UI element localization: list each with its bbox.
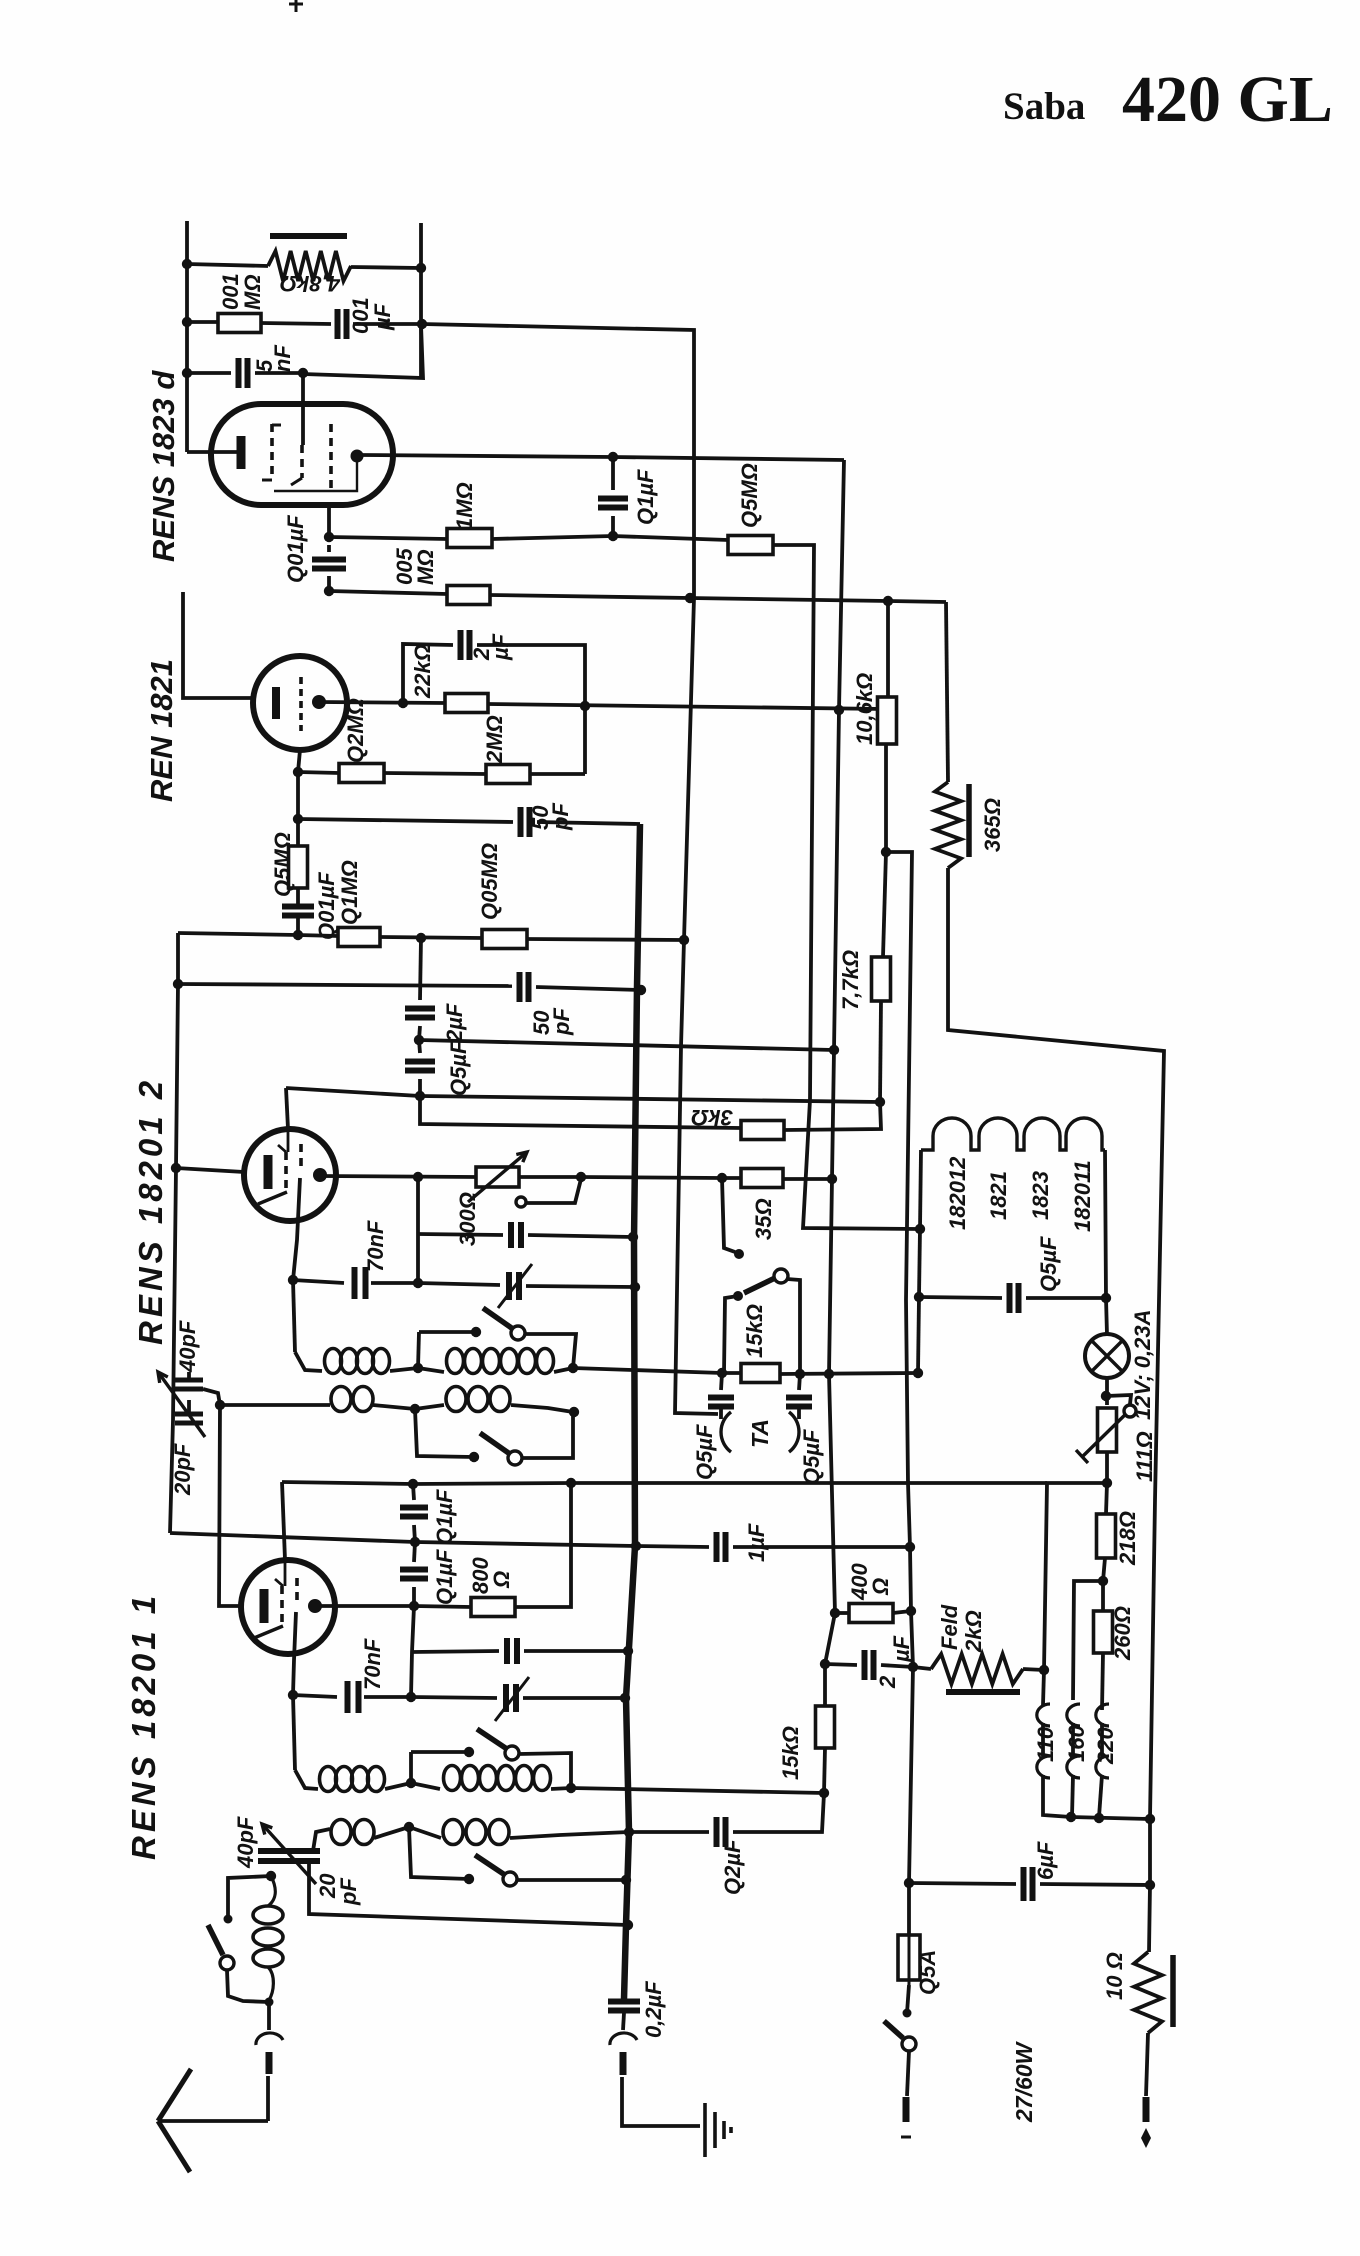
node junction right stub / 4.8k row bbox=[416, 263, 426, 273]
node trimmer bottom bbox=[266, 1871, 276, 1881]
wire bbox=[409, 1827, 469, 1879]
resistor 0,05M ohm bbox=[482, 930, 527, 949]
svg-text:Ω: Ω bbox=[868, 1578, 893, 1596]
capacitor 0,2uF bottom bbox=[608, 2002, 640, 2011]
resistor 7,7k ohm bbox=[872, 957, 891, 1001]
svg-text:260Ω: 260Ω bbox=[1110, 1606, 1135, 1661]
capacitor 20pF top plate bbox=[175, 1412, 203, 1417]
node S2 contact bbox=[469, 1452, 479, 1462]
wire bbox=[411, 1783, 440, 1789]
mains plug pin right bbox=[1143, 2097, 1150, 2122]
wire bbox=[327, 545, 331, 552]
switch pivot circle bbox=[902, 2037, 916, 2051]
wire bbox=[510, 1832, 629, 1838]
wire bbox=[1026, 1296, 1106, 1300]
resistor 10 ohm zigzag bbox=[1134, 1952, 1162, 2033]
plug diamond bbox=[1141, 2128, 1151, 2148]
wire bbox=[525, 1334, 576, 1368]
node rail B / cap row bbox=[623, 1646, 633, 1656]
wire bbox=[719, 1409, 723, 1419]
wire bbox=[1099, 1775, 1102, 1817]
wire bbox=[629, 1830, 709, 1834]
node anode row / 0.1uF cap bbox=[608, 452, 618, 462]
trimmer capacitor V4 bbox=[506, 1684, 516, 1712]
wire bbox=[220, 1403, 330, 1407]
node tap 160 bbox=[1066, 1812, 1076, 1822]
wire bbox=[524, 1649, 628, 1653]
wire bbox=[797, 1409, 801, 1419]
antenna plug pin bbox=[266, 2052, 273, 2074]
wire bbox=[267, 2002, 271, 2030]
tube V3 grid bar bbox=[264, 1155, 273, 1189]
wire bbox=[296, 819, 300, 846]
node coil junction L4 bbox=[404, 1822, 414, 1832]
trimmer arrow bbox=[158, 1372, 205, 1437]
wire bbox=[918, 1297, 919, 1373]
node anode row / cap column bbox=[409, 1601, 419, 1611]
wire bbox=[1043, 1775, 1071, 1817]
wire bbox=[622, 2077, 700, 2126]
wire bbox=[296, 772, 300, 819]
resistor 3k ohm bbox=[741, 1121, 784, 1140]
wire bbox=[783, 1177, 832, 1181]
transformer tap 160 bbox=[1067, 1704, 1080, 1778]
coil L4b bbox=[443, 1820, 463, 1845]
switch pivot circle bbox=[516, 1197, 526, 1207]
resistor 400 ohm bbox=[849, 1604, 893, 1623]
node rail C / 2uF row bbox=[820, 1659, 830, 1669]
node tap 220 bbox=[1094, 1813, 1104, 1823]
wire bbox=[282, 1482, 285, 1560]
wire bbox=[373, 1405, 415, 1409]
svg-text:Q5µF: Q5µF bbox=[446, 1040, 471, 1096]
resistor 10,6k ohm bbox=[878, 697, 897, 744]
svg-text:15kΩ: 15kΩ bbox=[778, 1726, 803, 1780]
wire bbox=[920, 1150, 921, 1229]
svg-text:Q01µF: Q01µF bbox=[283, 515, 308, 583]
node grid column top bbox=[215, 1400, 225, 1410]
node 0.1M/0.05M row / 2uF column bbox=[416, 933, 426, 943]
wire bbox=[526, 1286, 635, 1287]
wire bbox=[298, 772, 339, 773]
node antenna coil bottom bbox=[265, 1998, 274, 2007]
wire bbox=[415, 1542, 636, 1546]
wire bbox=[411, 1750, 469, 1754]
node coil junction L3 bbox=[406, 1778, 416, 1788]
node 15k right / switch bbox=[795, 1369, 805, 1379]
wire bbox=[523, 1696, 625, 1700]
svg-text:RENS 1823 d: RENS 1823 d bbox=[146, 370, 181, 562]
wire bbox=[293, 1695, 337, 1697]
resistor 0,5M ohm cathode bbox=[289, 846, 308, 888]
node cathode/0.2M row bbox=[293, 767, 303, 777]
node rail C / 15k row bbox=[824, 1369, 834, 1379]
wire bbox=[158, 2069, 191, 2121]
node 218 bottom / 160 branch bbox=[1098, 1576, 1108, 1586]
lamp 12V 0,23A bbox=[1085, 1334, 1129, 1378]
resistor 365 ohm zigzag bbox=[935, 782, 961, 868]
svg-text:Q5µF: Q5µF bbox=[1036, 1236, 1061, 1292]
wire bbox=[636, 1546, 709, 1547]
wire bbox=[227, 1970, 269, 2002]
wire bbox=[418, 1283, 500, 1285]
tube V1 anode plate thin L bbox=[274, 462, 357, 491]
svg-text:6µF: 6µF bbox=[1033, 1841, 1058, 1880]
switch pivot circle bbox=[511, 1326, 525, 1340]
wire bbox=[893, 1611, 911, 1613]
svg-text:Q5A: Q5A bbox=[915, 1950, 940, 1995]
node fuse bottom bbox=[903, 2009, 912, 2018]
switch pivot circle bbox=[774, 1269, 788, 1283]
svg-text:15kΩ: 15kΩ bbox=[742, 1304, 767, 1358]
resistor 22k ohm bbox=[445, 694, 488, 713]
resistor 260 ohm bbox=[1094, 1611, 1113, 1653]
svg-text:Q05MΩ: Q05MΩ bbox=[477, 843, 502, 920]
svg-text:35Ω: 35Ω bbox=[751, 1198, 776, 1240]
svg-text:160: 160 bbox=[1064, 1725, 1089, 1762]
node rail D / 2uF row bbox=[908, 1662, 918, 1672]
heater winding bumps bbox=[921, 1118, 1105, 1150]
capacitor 0,2uF bbox=[717, 1817, 726, 1847]
wire bbox=[413, 1484, 414, 1500]
wire bbox=[416, 1177, 420, 1283]
coil bbox=[253, 1949, 283, 1967]
resistor 4,8kOhm zigzag bbox=[268, 251, 351, 281]
wire bbox=[526, 1179, 581, 1203]
node coil L2b right bbox=[569, 1407, 579, 1417]
resistor 0,2M ohm bbox=[339, 764, 384, 783]
wire bbox=[409, 1827, 441, 1838]
svg-text:RENS 18201 1: RENS 18201 1 bbox=[125, 1592, 162, 1860]
svg-text:2: 2 bbox=[875, 1675, 900, 1689]
wire bbox=[419, 1040, 834, 1050]
wire bbox=[527, 939, 684, 940]
wire bbox=[411, 1697, 497, 1698]
wire bbox=[298, 935, 338, 936]
wire bbox=[414, 1525, 415, 1542]
resistor 0,01 M ohm bbox=[218, 314, 261, 333]
wire bbox=[1023, 1669, 1044, 1670]
node 2uF / row 1040 bbox=[414, 1035, 424, 1045]
wire bbox=[158, 2119, 268, 2123]
node rail A / row 940 bbox=[679, 935, 689, 945]
wire bbox=[1106, 1483, 1107, 1514]
node heater left / 0.5uF row bbox=[914, 1292, 924, 1302]
capacitor 50pF first bbox=[521, 807, 530, 837]
tube V1 anode dot bbox=[351, 450, 364, 463]
svg-text:Q1µF: Q1µF bbox=[633, 469, 658, 525]
resistor 0,5M ohm bbox=[728, 536, 773, 555]
wire bbox=[282, 1482, 413, 1484]
wire bbox=[414, 1606, 471, 1607]
capacitor 20pF bottom plate bbox=[175, 1421, 203, 1426]
capacitor 0,01uF bbox=[282, 907, 314, 916]
wire bbox=[412, 1587, 416, 1606]
node 0.5uF / row 1097 bbox=[415, 1091, 425, 1101]
node 300ohm right bbox=[576, 1172, 586, 1182]
svg-text:µF: µF bbox=[488, 633, 513, 661]
chassis plug pin bbox=[620, 2052, 627, 2075]
wire bbox=[787, 1279, 800, 1374]
tube V2 REN 1821 envelope bbox=[253, 656, 347, 750]
wire bbox=[477, 645, 585, 774]
node 5nF/grid junction bbox=[298, 368, 308, 378]
switch lever bbox=[483, 1308, 513, 1329]
svg-text:10,6kΩ: 10,6kΩ bbox=[852, 673, 877, 745]
node rail B / coil row bbox=[624, 1827, 634, 1837]
wire bbox=[886, 601, 890, 697]
rail F right bbox=[948, 868, 1164, 1819]
wire bbox=[773, 545, 920, 1229]
wire bbox=[187, 320, 218, 324]
wire bbox=[946, 602, 948, 782]
svg-text:µF: µF bbox=[370, 303, 395, 331]
svg-text:Q2µF: Q2µF bbox=[720, 1839, 745, 1895]
capacitor 2uF bbox=[865, 1650, 874, 1680]
wire bbox=[571, 1788, 824, 1793]
svg-text:40pF: 40pF bbox=[233, 1816, 258, 1869]
node 10.6k top bbox=[883, 596, 893, 606]
svg-text:RENS 18201 2: RENS 18201 2 bbox=[132, 1077, 169, 1345]
node 35ohm left bbox=[717, 1173, 727, 1183]
node rail C / 400ohm bbox=[830, 1608, 840, 1618]
svg-text:4,8kΩ: 4,8kΩ bbox=[280, 271, 341, 296]
node junction left rail / 4.8k row bbox=[182, 259, 192, 269]
wire bbox=[913, 1667, 931, 1669]
svg-text:pF: pF bbox=[548, 803, 573, 831]
switch lever bbox=[480, 1433, 510, 1454]
node 111/218 junction bbox=[1102, 1478, 1112, 1488]
svg-text:182011: 182011 bbox=[1070, 1160, 1095, 1232]
node rail B / 70nF row bbox=[630, 1282, 640, 1292]
capacitor fixed V4 bbox=[507, 1638, 517, 1664]
node rail A / 0.05M row bbox=[685, 593, 695, 603]
svg-text:20pF: 20pF bbox=[170, 1443, 195, 1496]
wire bbox=[419, 1040, 420, 1053]
capacitor 0,5uF TA left bbox=[708, 1398, 734, 1407]
wire bbox=[270, 233, 347, 239]
node rail B / 50pF row bbox=[636, 985, 646, 995]
transformer tap 220 bbox=[1096, 1704, 1109, 1778]
wire bbox=[835, 1611, 849, 1615]
node switch open contact bbox=[734, 1249, 744, 1259]
svg-text:110: 110 bbox=[1033, 1726, 1058, 1762]
node rail/0.01M row bbox=[182, 317, 192, 327]
wire bbox=[511, 1405, 573, 1412]
rheostat 111 ohm bbox=[1098, 1408, 1117, 1452]
wire bbox=[530, 772, 585, 776]
wire bbox=[519, 1753, 571, 1788]
node S1b contact bbox=[464, 1747, 474, 1757]
node rail / V3 grid bbox=[171, 1163, 181, 1173]
capacitor 70nF V4 bbox=[348, 1681, 359, 1713]
wire bbox=[351, 267, 421, 268]
node rail D / 6uF row bbox=[904, 1878, 914, 1888]
coil L2b bbox=[446, 1387, 466, 1412]
wire bbox=[611, 516, 615, 536]
resistor 35 ohm bbox=[741, 1169, 783, 1188]
wire bbox=[721, 1373, 722, 1390]
resistor 2M ohm bbox=[486, 765, 530, 784]
wire bbox=[883, 852, 886, 957]
node top row junction bbox=[417, 319, 427, 329]
Feld core bar bbox=[946, 1689, 1020, 1695]
svg-text:40pF: 40pF bbox=[175, 1320, 200, 1373]
wire bbox=[722, 1176, 741, 1180]
wire bbox=[362, 455, 844, 460]
wire bbox=[528, 1235, 633, 1237]
potentiometer 300 ohm bbox=[476, 1167, 519, 1187]
svg-text:10 Ω: 10 Ω bbox=[1102, 1952, 1127, 2000]
wire bbox=[675, 598, 718, 1414]
wire bbox=[537, 822, 640, 824]
tube V1 RENS 1823d envelope bbox=[211, 404, 393, 505]
wire bbox=[203, 1389, 220, 1405]
svg-text:TA: TA bbox=[747, 1419, 773, 1448]
tube V4 anode dot bbox=[308, 1599, 322, 1613]
svg-text:µF: µF bbox=[889, 1635, 914, 1663]
wire bbox=[293, 1178, 300, 1280]
node coil L3b right bbox=[566, 1783, 576, 1793]
wire bbox=[315, 1604, 414, 1608]
capacitor 0,1uF bbox=[598, 499, 628, 508]
wire bbox=[517, 1878, 626, 1882]
node cathode / 50pF row bbox=[293, 814, 303, 824]
wire bbox=[624, 824, 640, 1999]
wire bbox=[178, 984, 512, 986]
svg-text:nF: nF bbox=[270, 345, 295, 372]
wire bbox=[409, 1752, 413, 1783]
node cathode/0.05M row bbox=[324, 586, 334, 596]
node 7.7k bottom / rows 1097+1131 bbox=[875, 1097, 885, 1107]
capacitor 2uF bbox=[461, 630, 470, 660]
wire bbox=[420, 1096, 880, 1102]
wire: V3 top grid lead bbox=[286, 1088, 288, 1129]
switch lever bbox=[475, 1855, 505, 1875]
capacitor 50pF second bbox=[520, 972, 529, 1002]
wire bbox=[1146, 2033, 1148, 2096]
node S4 top contact bbox=[224, 1915, 233, 1924]
svg-text:1MΩ: 1MΩ bbox=[452, 482, 477, 530]
svg-text:Feld: Feld bbox=[937, 1604, 962, 1650]
svg-text:2MΩ: 2MΩ bbox=[482, 715, 507, 764]
node 70nF row / column bbox=[413, 1278, 423, 1288]
wire bbox=[371, 1281, 418, 1285]
wire bbox=[919, 1229, 920, 1297]
svg-text:111Ω: 111Ω bbox=[1132, 1431, 1157, 1482]
wire bbox=[823, 1664, 827, 1706]
wire bbox=[364, 1695, 411, 1699]
wire bbox=[784, 1102, 881, 1130]
wire bbox=[1105, 1452, 1109, 1483]
svg-text:Q01µF: Q01µF bbox=[314, 872, 339, 940]
wire bbox=[418, 1234, 503, 1235]
svg-text:218Ω: 218Ω bbox=[1115, 1511, 1140, 1566]
node coil junction L1 bbox=[413, 1363, 423, 1373]
wire bbox=[1101, 1581, 1105, 1611]
svg-text:12V; 0,23A: 12V; 0,23A bbox=[1130, 1310, 1155, 1420]
wire bbox=[554, 1368, 573, 1372]
trimmer capacitor bbox=[509, 1272, 519, 1300]
capacitor 0,01uF top bbox=[338, 309, 347, 339]
wire bbox=[733, 1793, 824, 1832]
svg-text:Q5MΩ: Q5MΩ bbox=[270, 832, 295, 897]
node rail C / 35ohm bbox=[827, 1174, 837, 1184]
node rail/5nF row bbox=[182, 368, 192, 378]
node rail F / tap row bbox=[1145, 1814, 1155, 1824]
ground symbol bbox=[705, 2103, 731, 2157]
coil L1b bbox=[447, 1349, 464, 1374]
node anode row to rail C bbox=[834, 705, 844, 715]
wire bbox=[170, 933, 178, 1533]
antenna coil L5 bbox=[268, 1876, 275, 1906]
wire bbox=[185, 221, 189, 452]
svg-text:365Ω: 365Ω bbox=[980, 798, 1005, 852]
resistor Feld 2k zigzag bbox=[931, 1654, 1023, 1684]
wire bbox=[722, 1178, 735, 1252]
wire bbox=[385, 1783, 411, 1789]
wire bbox=[571, 1481, 1047, 1485]
wire bbox=[313, 1829, 330, 1851]
wire bbox=[295, 1352, 322, 1371]
wire bbox=[414, 1542, 415, 1562]
svg-text:pF: pF bbox=[549, 1008, 574, 1036]
switch lever bbox=[208, 1925, 223, 1955]
wire bbox=[327, 505, 331, 537]
wire bbox=[411, 1606, 414, 1697]
resistor 218 ohm bbox=[1097, 1514, 1116, 1558]
capacitor 0,01uF bbox=[312, 560, 346, 569]
node anode row / cap column bbox=[413, 1172, 423, 1182]
node cathode / 70nF row bbox=[288, 1275, 298, 1285]
wire bbox=[319, 702, 445, 703]
registration tick top bbox=[289, 0, 303, 12]
wire bbox=[1103, 1558, 1105, 1581]
wire bbox=[799, 1374, 800, 1390]
wire bbox=[187, 450, 237, 454]
switch lever bbox=[744, 1277, 777, 1293]
10 ohm bar bbox=[1170, 1955, 1176, 2027]
svg-text:Q1µF: Q1µF bbox=[432, 1489, 457, 1545]
node rail / 50pF row bbox=[173, 979, 183, 989]
capacitor 6uF bbox=[1024, 1867, 1033, 1901]
300 ohm arrow bbox=[468, 1152, 527, 1202]
wire bbox=[880, 1001, 881, 1102]
wire bbox=[266, 2076, 270, 2121]
wire bbox=[419, 223, 423, 378]
wire bbox=[690, 598, 888, 601]
resistor 800 ohm bbox=[471, 1598, 515, 1617]
capacitor 0,5uF heater bbox=[1010, 1283, 1019, 1313]
capacitor 0,5uF TA right bbox=[786, 1398, 812, 1407]
tube V2 internal grid dash bbox=[299, 677, 303, 731]
tube V1 internal grid dashes bbox=[270, 424, 274, 480]
wire bbox=[412, 1651, 499, 1652]
node 0.1uF top bbox=[408, 1479, 418, 1489]
wire bbox=[488, 704, 885, 709]
svg-text:22kΩ: 22kΩ bbox=[410, 644, 435, 699]
svg-text:Q1MΩ: Q1MΩ bbox=[337, 860, 362, 925]
svg-text:1µF: 1µF bbox=[744, 1523, 769, 1562]
wire bbox=[422, 324, 694, 598]
node 0.1uF caps mid bbox=[410, 1537, 420, 1547]
wire bbox=[261, 323, 331, 324]
node coil L1b right bbox=[568, 1363, 578, 1373]
wire bbox=[303, 325, 423, 378]
node rail B / 70nF row bbox=[620, 1693, 630, 1703]
wire bbox=[219, 1405, 241, 1606]
wire bbox=[187, 1372, 191, 1380]
